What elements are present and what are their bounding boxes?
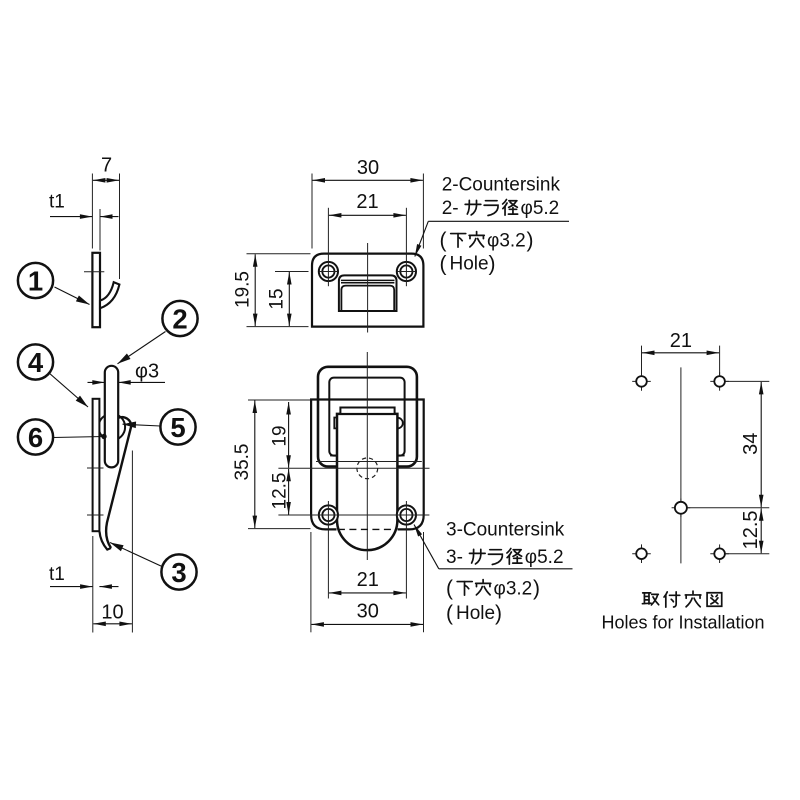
balloon 6 leader and dot (53, 437, 104, 438)
install center line (680, 367, 682, 563)
balloon 6 (18, 419, 53, 454)
svg-text:30: 30 (357, 600, 379, 622)
svg-text:φ3: φ3 (135, 361, 159, 383)
balloon 3 (161, 554, 196, 589)
dimension 12.5 (install) (760, 508, 762, 553)
svg-text:2: 2 (172, 303, 187, 334)
dimension 30 (latch) ext (310, 532, 312, 632)
dimension 15 extension (275, 271, 309, 273)
balloon 4 (18, 344, 53, 379)
svg-text:15: 15 (267, 288, 288, 309)
dimension 15 (288, 272, 290, 326)
balloon 1 (18, 263, 53, 298)
dimension 12.5 (latch) (288, 469, 290, 515)
install hole top-right (710, 380, 729, 382)
lever and tongue (337, 414, 397, 550)
svg-text:2-Countersink: 2-Countersink (442, 175, 561, 196)
svg-text:21: 21 (670, 330, 692, 352)
latch hole left (319, 505, 338, 524)
svg-text:φ3.2: φ3.2 (487, 231, 526, 252)
dimension 10 extension lines (92, 536, 94, 633)
bail outer (318, 367, 417, 467)
svg-text:3: 3 (171, 557, 186, 588)
dashed pivot circle (357, 458, 378, 479)
hole crosshairs (319, 271, 337, 273)
svg-text:19.5: 19.5 (233, 271, 254, 308)
svg-text:4: 4 (28, 347, 44, 378)
latch hole right (397, 505, 416, 524)
latch center line (366, 352, 368, 560)
svg-text:12.5: 12.5 (269, 473, 290, 510)
dimension 21 (install) (642, 352, 719, 354)
hidden body bottom edge (dashed) (338, 528, 397, 530)
keeper center line (367, 243, 369, 333)
svg-text:21: 21 (356, 191, 378, 213)
svg-text:t1: t1 (49, 564, 65, 585)
svg-text:35.5: 35.5 (232, 444, 253, 481)
svg-text:21: 21 (357, 569, 379, 591)
balloon 5 leader (123, 424, 161, 426)
install bottom ext line (724, 553, 769, 555)
svg-text:): ) (533, 577, 540, 600)
keeper plate outline (312, 254, 423, 327)
spring clip curl (100, 532, 112, 550)
dimension 10 (93, 623, 132, 625)
svg-text:7: 7 (101, 155, 112, 177)
svg-text:(: ( (440, 253, 447, 276)
svg-text:Hole: Hole (450, 254, 489, 275)
dimension 19.5 (247, 253, 311, 255)
keeper plate (side) (92, 253, 100, 327)
svg-text:): ) (489, 253, 496, 276)
svg-text:t1: t1 (49, 192, 65, 213)
keeper hook lip (100, 282, 119, 308)
latch plate ticks (87, 467, 104, 469)
svg-text:1: 1 (28, 265, 43, 296)
balloon 3 leader (110, 543, 162, 567)
svg-text:2-: 2- (442, 198, 459, 219)
lever step plate (340, 408, 394, 414)
keeper plate tick (84, 271, 104, 273)
install hole bottom-right (710, 553, 729, 555)
keeper hole left (319, 262, 338, 281)
svg-text:φ3.2: φ3.2 (494, 579, 533, 600)
svg-text:12.5: 12.5 (740, 510, 762, 549)
svg-text:(: ( (440, 229, 447, 252)
balloon 1 leader (55, 287, 90, 305)
balloon 5 (160, 409, 195, 444)
latch plate (side) (93, 399, 100, 531)
svg-text:10: 10 (101, 602, 123, 624)
dimension 21 (latch) (329, 592, 406, 594)
svg-text:34: 34 (740, 433, 762, 455)
svg-text:5: 5 (170, 412, 185, 443)
rivet circle (99, 414, 126, 441)
hole center line latch (278, 514, 429, 516)
lever left tab (334, 418, 337, 429)
dimension 19 (latch) (288, 402, 290, 468)
install center-hole line (681, 507, 769, 509)
keeper hole right (397, 262, 416, 281)
dimension 7 extension lines (91, 174, 93, 249)
spring clip diagonal (106, 417, 131, 548)
svg-text:Hole: Hole (456, 603, 495, 624)
keeper emboss outer (339, 275, 397, 311)
svg-text:6: 6 (28, 422, 43, 453)
svg-text:(: ( (446, 577, 453, 600)
dimension t1 (bottom) (50, 586, 93, 588)
svg-text:30: 30 (357, 157, 379, 179)
svg-text:Holes for Installation: Holes for Installation (601, 613, 764, 633)
rivet center line (278, 467, 429, 469)
dimension 34 (install) (760, 382, 762, 507)
install hole bottom-left (632, 553, 651, 555)
hole vertical lines latch / 21 ext (327, 501, 329, 599)
lever right tab (397, 418, 402, 429)
svg-text:3-Countersink: 3-Countersink (446, 520, 565, 541)
countersink leader (latch) (414, 525, 439, 569)
latch body outline (311, 400, 424, 530)
install title japanese (642, 593, 658, 605)
dimension 21 (keeper) (327, 208, 329, 286)
keeper emboss contour lines (341, 279, 395, 281)
svg-text:φ5.2: φ5.2 (525, 547, 564, 568)
balloon 2 leader (118, 332, 166, 364)
countersink leader (keeper) (415, 221, 429, 256)
install hole top-left (632, 380, 651, 382)
install top ext line (724, 380, 769, 382)
svg-text:φ5.2: φ5.2 (521, 198, 560, 219)
balloon 4 leader (49, 373, 89, 408)
install hole center (672, 507, 691, 509)
dimension 21 (install) ext (641, 346, 643, 376)
dimension 30 (keeper) (311, 174, 313, 249)
dimension 7 (93, 179, 119, 181)
svg-text:19: 19 (269, 425, 290, 446)
svg-text:): ) (495, 602, 502, 625)
latch thin line upper (316, 461, 422, 463)
dimension phi3 (88, 381, 105, 383)
svg-text:3-: 3- (446, 547, 463, 568)
svg-text:(: ( (446, 602, 453, 625)
latch rod (phi 3 wire) (105, 366, 118, 468)
dimension t1 (top) (50, 216, 92, 218)
svg-text:): ) (527, 229, 534, 252)
bail inner (329, 378, 404, 456)
balloon 2 (162, 301, 197, 336)
bail inner bottom segments (330, 455, 337, 457)
dimension 30 (latch) (311, 623, 423, 625)
dimension 35.5 (248, 399, 311, 401)
